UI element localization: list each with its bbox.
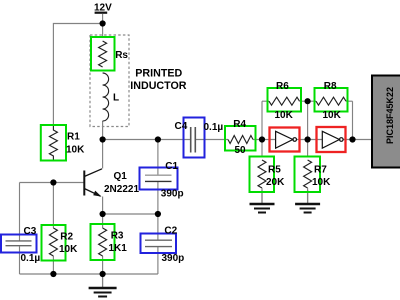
wire C1 branch top bbox=[157, 140, 159, 176]
resistor R6 highlight box bbox=[268, 88, 302, 112]
svg-text:10K: 10K bbox=[275, 110, 294, 121]
wire C2 top bbox=[157, 214, 159, 240]
svg-text:R8: R8 bbox=[324, 81, 337, 92]
resistor R1 highlight box bbox=[41, 125, 66, 161]
capacitor C4 highlight box bbox=[184, 118, 205, 158]
power 12V bbox=[94, 3, 112, 14]
wire R7 to ground bbox=[307, 188, 309, 204]
node C2 top bbox=[155, 211, 161, 217]
resistor R8 highlight box bbox=[315, 88, 348, 112]
ground main bbox=[89, 274, 117, 297]
inductor L symbol bbox=[103, 73, 109, 121]
inverter U2 highlight box bbox=[317, 127, 346, 152]
capacitor C1 plates bbox=[145, 174, 172, 176]
wire R2 branch bbox=[52, 183, 54, 229]
resistor R5 symbol bbox=[258, 160, 266, 188]
svg-text:C4: C4 bbox=[175, 121, 188, 132]
svg-text:PIC18F45K22: PIC18F45K22 bbox=[385, 87, 395, 144]
resistor R4 highlight box bbox=[225, 126, 256, 151]
resistor R7 highlight box bbox=[295, 157, 321, 193]
wire R6 leads bbox=[262, 100, 269, 102]
svg-text:L: L bbox=[113, 93, 119, 104]
node U2 out bbox=[349, 136, 355, 142]
printed inductor dashed outline bbox=[90, 35, 129, 127]
wire base branch down to C3 bbox=[19, 183, 21, 241]
resistor R7 symbol bbox=[304, 160, 312, 188]
node U1 in bbox=[259, 136, 265, 142]
wire R2 bottom to rail bbox=[52, 256, 54, 274]
capacitor C4 plates bbox=[191, 127, 196, 153]
node 12V rail bbox=[100, 20, 106, 26]
svg-text:0.1µ: 0.1µ bbox=[204, 122, 224, 133]
wire base node row bbox=[20, 182, 85, 184]
ground under R7 bbox=[295, 190, 320, 213]
wire C2 bottom to rail bbox=[157, 247, 159, 274]
svg-text:Q1: Q1 bbox=[114, 171, 128, 182]
node U1 out bbox=[305, 136, 311, 142]
svg-text:10K: 10K bbox=[66, 145, 85, 156]
svg-text:12V: 12V bbox=[94, 3, 112, 14]
resistor R6 symbol bbox=[269, 97, 300, 105]
svg-text:R6: R6 bbox=[276, 81, 289, 92]
svg-text:Rs: Rs bbox=[115, 50, 128, 61]
wire emitter row to C2 branch bbox=[103, 213, 158, 215]
wire R5 to ground bbox=[261, 188, 263, 204]
node rail R2 bbox=[50, 271, 56, 277]
svg-text:C1: C1 bbox=[165, 161, 178, 172]
resistor R3 symbol bbox=[99, 228, 107, 256]
svg-text:R5: R5 bbox=[268, 165, 281, 176]
wire U2 output to IC bbox=[343, 139, 372, 141]
resistor R8 symbol bbox=[316, 97, 346, 105]
wire C3 bottom to rail bbox=[19, 246, 21, 274]
wire U1 output to U2 input bbox=[297, 139, 323, 141]
svg-text:PRINTED: PRINTED bbox=[135, 68, 182, 80]
svg-text:R1: R1 bbox=[67, 132, 80, 143]
wire emitter vertical bbox=[102, 197, 104, 215]
svg-text:10K: 10K bbox=[59, 244, 78, 255]
capacitor C3 plates bbox=[6, 240, 32, 242]
wire emitter node to R3 bbox=[102, 214, 104, 228]
resistor R5 highlight box bbox=[250, 157, 275, 193]
resistor R1 symbol bbox=[49, 125, 57, 161]
svg-text:INDUCTOR: INDUCTOR bbox=[130, 80, 186, 92]
op-amp/inverter U1 bbox=[276, 131, 297, 148]
wire R8 leads bbox=[308, 100, 316, 102]
resistor R4 symbol bbox=[228, 136, 253, 144]
svg-text:R7: R7 bbox=[314, 165, 327, 176]
resistor R2 symbol bbox=[49, 228, 57, 256]
wire collector node to C4 bbox=[103, 139, 191, 141]
svg-text:R2: R2 bbox=[60, 232, 73, 243]
svg-text:0.1µ: 0.1µ bbox=[21, 253, 41, 264]
resistor Rs highlight box bbox=[91, 37, 115, 71]
wire node B vertical (R6-R8 mid / R7 top) bbox=[307, 101, 309, 157]
svg-text:50: 50 bbox=[235, 145, 247, 156]
capacitor C1 highlight box bbox=[140, 168, 178, 190]
svg-text:R4: R4 bbox=[233, 119, 246, 130]
capacitor C2 highlight box bbox=[141, 234, 177, 254]
svg-text:1K1: 1K1 bbox=[109, 243, 128, 254]
node base bbox=[50, 179, 56, 185]
wire Rs top stub bbox=[102, 24, 104, 38]
wire C4 to R4 bbox=[195, 139, 228, 141]
wire R3 bottom to rail bbox=[102, 256, 104, 274]
op-amp/inverter U2 bbox=[322, 131, 343, 148]
node C1 top bbox=[155, 136, 161, 142]
resistor Rs symbol bbox=[99, 41, 107, 67]
resistor R2 highlight box bbox=[42, 225, 66, 261]
wire R8 right to output node bbox=[352, 101, 354, 139]
wire ground rail bbox=[20, 273, 158, 275]
node emitter bbox=[100, 211, 106, 217]
svg-text:R3: R3 bbox=[111, 231, 124, 242]
wire C1 to emitter row bbox=[157, 182, 159, 215]
svg-text:2N2221: 2N2221 bbox=[104, 184, 139, 195]
svg-text:C3: C3 bbox=[24, 226, 37, 237]
resistor R3 highlight box bbox=[91, 224, 115, 260]
node collector bbox=[100, 136, 106, 142]
capacitor C3 highlight box bbox=[1, 235, 37, 253]
svg-text:10K: 10K bbox=[323, 110, 342, 121]
transistor Q1 bbox=[84, 169, 102, 197]
node rail R3 bbox=[100, 271, 106, 277]
IC U3 PIC18F45K22 bbox=[372, 76, 400, 168]
ground under R5 bbox=[250, 190, 275, 213]
wire 12V rail to R1 top bbox=[53, 14, 102, 125]
capacitor C2 plates bbox=[145, 239, 172, 241]
wire collector vertical bbox=[102, 140, 104, 169]
wire inductor bottom to collector node bbox=[102, 121, 104, 140]
svg-text:390p: 390p bbox=[161, 189, 184, 200]
inverter U1 highlight box bbox=[270, 128, 300, 152]
wire node A vertical (R6 left / R5 top) bbox=[261, 101, 263, 157]
svg-text:C2: C2 bbox=[164, 226, 177, 237]
svg-text:10K: 10K bbox=[312, 177, 331, 188]
wire R4 out to inverter U1 input bbox=[253, 139, 276, 141]
svg-text:20K: 20K bbox=[266, 177, 285, 188]
svg-text:390p: 390p bbox=[162, 253, 185, 264]
node R6-R8 bbox=[305, 98, 311, 104]
